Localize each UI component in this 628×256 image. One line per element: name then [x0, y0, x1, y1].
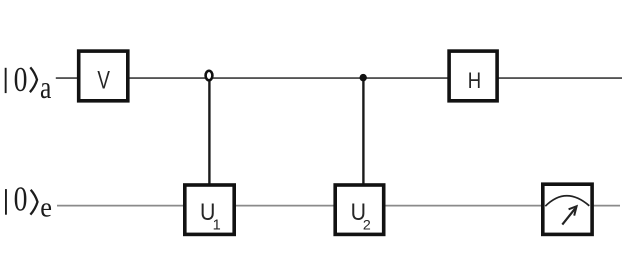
svg-text:V: V [97, 66, 110, 94]
svg-text:2: 2 [363, 218, 371, 234]
svg-text:0: 0 [14, 60, 28, 99]
gate U2 box [335, 185, 384, 234]
svg-text:H: H [468, 68, 481, 93]
wire qubit e: segment gate U2 to measurement [385, 205, 543, 207]
wire qubit a: segment gate V to gate H [129, 77, 449, 79]
wire vertical: open control to gate U1 [208, 81, 210, 185]
wire qubit e: segment gate U1 to gate U2 [235, 205, 335, 207]
gate V box [79, 51, 128, 101]
node |0>_e ket label (qubit e input) [5, 180, 52, 223]
wire qubit e: segment measurement to right edge [593, 205, 620, 207]
gate H box [449, 51, 497, 101]
svg-text:e: e [40, 192, 52, 223]
svg-text:1: 1 [213, 217, 221, 233]
control (filled dot) on qubit a [360, 74, 367, 81]
meter arc [545, 196, 589, 206]
wire qubit a: segment ket to gate V [56, 77, 78, 79]
svg-text:a: a [40, 72, 52, 106]
wire qubit e: segment ket to gate U1 [57, 205, 184, 207]
control (open circle) on qubit a [206, 71, 213, 81]
node |0>_a ket label (qubit a input) [5, 60, 52, 105]
wire vertical: filled control to gate U2 [362, 78, 364, 184]
svg-text:0: 0 [14, 180, 28, 219]
wire qubit a: segment gate H to right edge [498, 77, 622, 79]
gate U1 box [185, 185, 234, 234]
measurement meter box [543, 184, 592, 234]
meter needle arrow [562, 208, 575, 224]
